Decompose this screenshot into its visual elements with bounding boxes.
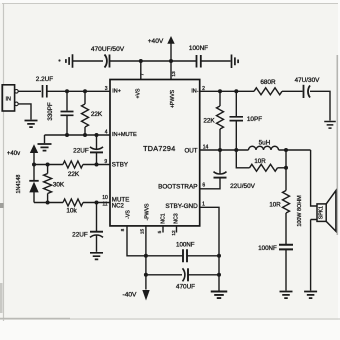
svg-text:7: 7 — [140, 73, 146, 76]
node 22K-in bottom — [83, 133, 87, 137]
svg-text:10: 10 — [102, 195, 108, 201]
svg-text:13: 13 — [171, 71, 177, 77]
svg-text:IN-: IN- — [191, 88, 198, 94]
ground (rail left, rotated) — [66, 54, 73, 68]
svg-text:47U/30V: 47U/30V — [295, 77, 321, 84]
resistor R 10k — [63, 199, 83, 206]
scan border left — [3, 3, 5, 321]
wire 100NF bottom rail — [146, 255, 219, 257]
svg-text:4: 4 — [105, 130, 108, 136]
wire speaker drop — [311, 150, 317, 291]
ground (mute rail) — [38, 144, 52, 151]
svg-text:+PWVS: +PWVS — [170, 89, 176, 108]
resistor R 10R (parallel) — [236, 150, 249, 168]
svg-text:22UF: 22UF — [72, 232, 88, 239]
capacitor C 22U/50V (bootstrap) — [219, 150, 221, 174]
svg-text:-40V: -40V — [123, 292, 138, 299]
svg-text:22K: 22K — [203, 118, 215, 125]
capacitor C 100NF (bottom) — [183, 249, 187, 262]
svg-text:NC2: NC2 — [112, 203, 125, 209]
svg-text:6: 6 — [202, 183, 205, 189]
capacitor C 100NF (zobel) — [279, 245, 293, 250]
wire NC1 stub — [162, 226, 164, 233]
svg-text:OUT: OUT — [184, 148, 197, 155]
svg-text:100NF: 100NF — [176, 242, 195, 249]
node out-zobel — [284, 148, 288, 152]
ground (speaker) — [304, 292, 317, 299]
svg-text:11: 11 — [102, 202, 107, 208]
node stbygnd-100nf — [217, 254, 221, 258]
wire IN+MUTE rail — [45, 134, 111, 136]
capacitor C 470UF (bottom) — [183, 268, 185, 281]
svg-text:+40V: +40V — [148, 38, 164, 45]
wire +40V rail — [73, 60, 231, 62]
wire MUTE net — [34, 202, 110, 204]
scan border right — [336, 55, 338, 235]
svg-text:STBY: STBY — [112, 162, 128, 169]
node 22UF-a bottom — [95, 163, 99, 167]
svg-text:NC1: NC1 — [160, 213, 166, 223]
wire +VS drop — [140, 61, 142, 80]
capacitor C 10PF — [235, 91, 237, 116]
wire IN- net — [200, 90, 303, 92]
svg-text:2.2UF: 2.2UF — [36, 76, 53, 83]
node mute cap top — [95, 201, 99, 205]
svg-text:100W 8OHM: 100W 8OHM — [297, 195, 303, 227]
resistor R 10R (zobel) — [283, 191, 290, 214]
svg-text:10R: 10R — [269, 202, 281, 209]
svg-text:-VS: -VS — [125, 210, 131, 219]
connector J IN — [2, 85, 14, 111]
wire STBY-GND drop — [200, 207, 219, 290]
svg-text:9: 9 — [104, 159, 107, 165]
wire NC3 stub — [176, 226, 178, 233]
wire 47U to gnd — [310, 91, 330, 120]
svg-text:IN+: IN+ — [112, 88, 121, 94]
wire -VS drop — [127, 226, 146, 256]
node 10PF bottom — [234, 148, 238, 152]
node rail +PWVS junction — [169, 59, 173, 63]
power +40V arrow — [167, 36, 174, 44]
svg-text:470UF/50V: 470UF/50V — [91, 46, 125, 53]
svg-text:30K: 30K — [53, 182, 65, 189]
ground (mute cap) — [90, 253, 103, 260]
capacitor C 330PF — [66, 91, 68, 110]
speaker SPK1 — [317, 204, 326, 222]
svg-text:1N4148: 1N4148 — [16, 175, 22, 194]
svg-text:TDA7294: TDA7294 — [143, 144, 175, 153]
svg-text:10PF: 10PF — [247, 116, 262, 123]
node 30K bottom — [46, 201, 50, 205]
node stbygnd-470uf — [217, 273, 221, 277]
wire 470UF bottom rail — [146, 274, 219, 276]
node 330PF bottom — [65, 133, 69, 137]
node fb 22K top — [218, 89, 222, 93]
svg-text:STBY-GND: STBY-GND — [165, 203, 198, 210]
wire STBY net — [34, 164, 110, 166]
svg-text:IN: IN — [5, 96, 11, 102]
node stby left — [32, 163, 36, 167]
ground (input) — [25, 121, 38, 128]
node 30K top — [46, 163, 50, 167]
scan border bottom — [0, 318, 340, 320]
resistor R 22K (stby) — [63, 161, 83, 168]
svg-text:5uH: 5uH — [259, 140, 271, 147]
margin bands — [0, 0, 340, 3]
op-amp U1 TDA7294 body — [110, 80, 200, 226]
resistor R 680R — [254, 88, 282, 95]
wire input to IN+ — [47, 90, 110, 92]
svg-text:10k: 10k — [66, 208, 77, 215]
capacitor C 470UF/50V — [105, 55, 107, 68]
scan border top — [2, 3, 338, 5]
capacitor C 2.2UF — [43, 85, 47, 98]
svg-text:680R: 680R — [260, 79, 276, 86]
svg-text:22K: 22K — [68, 171, 80, 178]
svg-text:470UF: 470UF — [176, 284, 195, 291]
node -pwvs join — [144, 273, 148, 277]
wire input top — [18, 90, 41, 92]
capacitor C 47U/30V — [303, 85, 305, 98]
svg-text:5: 5 — [157, 230, 163, 233]
ground (stby-gnd) — [211, 292, 228, 299]
svg-text:10R: 10R — [254, 158, 266, 165]
svg-text:330PF: 330PF — [47, 102, 54, 120]
node 10PF top — [234, 89, 238, 93]
svg-text:22U/50V: 22U/50V — [230, 183, 256, 190]
node rail-VS junction — [139, 59, 143, 63]
power -40V arrow — [142, 290, 149, 301]
svg-text:15: 15 — [139, 229, 145, 235]
wire OUT net — [200, 149, 311, 151]
svg-text:-PWVS: -PWVS — [144, 203, 150, 221]
svg-text:22UF: 22UF — [73, 148, 89, 155]
svg-text:IN+MUTE: IN+MUTE — [112, 132, 137, 138]
node 22K-in top — [83, 89, 87, 93]
node 330PF top — [65, 89, 69, 93]
ground (zobel) — [280, 292, 293, 299]
wire input gnd stub — [18, 104, 31, 120]
svg-text:100NF: 100NF — [189, 45, 208, 52]
capacitor C 22UF (mute lower) — [96, 203, 98, 232]
node -vs join — [144, 254, 148, 258]
diode D 1N4148 — [29, 180, 38, 182]
node 22UF-a top — [95, 133, 99, 137]
resistor R 22K (input) — [84, 91, 86, 104]
ground (47U) — [324, 122, 336, 129]
resistor R 22K (feedback) — [219, 91, 221, 106]
wire -PWVS drop — [145, 226, 147, 290]
power +40v arrow (small) — [30, 144, 38, 153]
svg-text:100NF: 100NF — [258, 245, 277, 252]
svg-text:SPK1: SPK1 — [318, 206, 324, 219]
wire mute-gnd stub — [44, 135, 46, 143]
inductor L 5uH — [249, 146, 279, 150]
resistor R 30K — [47, 165, 49, 174]
node zobel parallel join — [284, 166, 288, 170]
node bootstrap top — [218, 148, 222, 152]
svg-text:8: 8 — [120, 228, 126, 231]
svg-text:+40v: +40v — [7, 151, 20, 157]
wire zobel drop — [285, 150, 287, 191]
svg-text:+VS: +VS — [135, 88, 141, 98]
capacitor C 100NF (top) — [197, 55, 201, 68]
svg-text:BOOTSTRAP: BOOTSTRAP — [158, 183, 197, 190]
ground (rail right, rotated) — [232, 55, 239, 69]
svg-text:3: 3 — [105, 86, 108, 92]
svg-text:NC3: NC3 — [173, 213, 179, 223]
svg-text:22K: 22K — [91, 111, 103, 118]
capacitor C 22UF (stby upper) — [96, 135, 98, 150]
